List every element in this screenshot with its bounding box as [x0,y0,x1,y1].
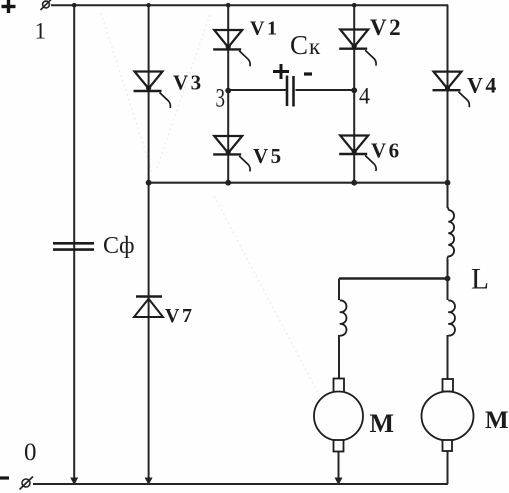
junction bus x=354 [351,180,357,186]
svg-text:V1: V1 [250,18,279,40]
wire right vertical [447,5,449,208]
svg-text:V2: V2 [370,15,403,40]
wire left motor to bottom [338,452,340,485]
arrow junction bottom left motor [335,478,343,486]
svg-text:Ск: Ск [290,30,321,60]
svg-text:V3: V3 [173,71,204,95]
wire left vertical [73,5,75,481]
junction top wire x=354 [352,3,357,8]
wire node3 to capacitor [228,89,286,91]
wire capacitor to node4 [296,89,355,91]
svg-text:4: 4 [359,84,370,109]
motor M right [422,379,509,451]
junction top wire x=148 [146,3,150,7]
motor M left [314,379,394,452]
svg-text:V5: V5 [253,144,284,168]
node 3 junction [225,88,231,94]
wire left motor branch upper [338,279,340,301]
coil left motor [340,300,347,335]
thyristor V5 [213,136,283,172]
wire coil to right motor [447,335,449,379]
svg-text:V7: V7 [165,305,194,327]
wire right motor to bottom [447,451,449,484]
diode V7 [134,297,194,328]
inductor L [447,207,489,296]
terminal + (input) [41,0,53,10]
coil right motor [448,300,455,335]
label - of Ск [304,72,312,75]
wire right motor branch upper [447,279,449,301]
svg-text:1: 1 [35,19,47,44]
svg-text:0: 0 [24,439,37,466]
wire V1-V5 branch vertical [227,5,229,183]
junction bus x=448 [445,180,451,186]
junction bus x=148 [146,180,152,186]
wire coil to left motor [338,335,340,379]
capacitor Ск [287,76,294,107]
svg-text:3: 3 [216,84,226,113]
label + (positive pole) [2,0,16,13]
wire second vertical [148,5,150,481]
wire V2-V6 branch vertical [353,5,355,183]
svg-text:V4: V4 [467,73,499,98]
svg-text:M: M [485,407,509,434]
label - (negative pole) [0,476,9,479]
junction L split [445,276,451,282]
thyristor V4 [433,72,499,108]
svg-text:Сф: Сф [103,233,135,259]
thyristor V1 [213,18,279,67]
label + of Ск [273,64,289,79]
wire top bus (node 1) [51,4,448,6]
thyristor V2 [339,15,403,66]
wire bottom bus (node 0) [33,483,448,485]
arrow junction bottom of left wire [70,478,78,486]
junction top wire x=228 [226,3,231,8]
svg-text:M: M [370,409,395,438]
thyristor V3 [134,71,204,109]
node 4 junction [351,87,357,93]
terminal - (output) [20,477,34,490]
arrow junction bottom of second wire [145,478,153,486]
capacitor Сф [53,243,94,249]
junction bus x=228 [225,180,231,186]
wire junction horizontal [339,277,448,279]
wire middle bus [149,182,448,184]
junction top-left [72,3,77,8]
wire inductor to junction [447,259,449,279]
svg-text:V6: V6 [371,139,402,163]
thyristor V6 [339,136,401,172]
svg-text:L: L [471,263,489,296]
